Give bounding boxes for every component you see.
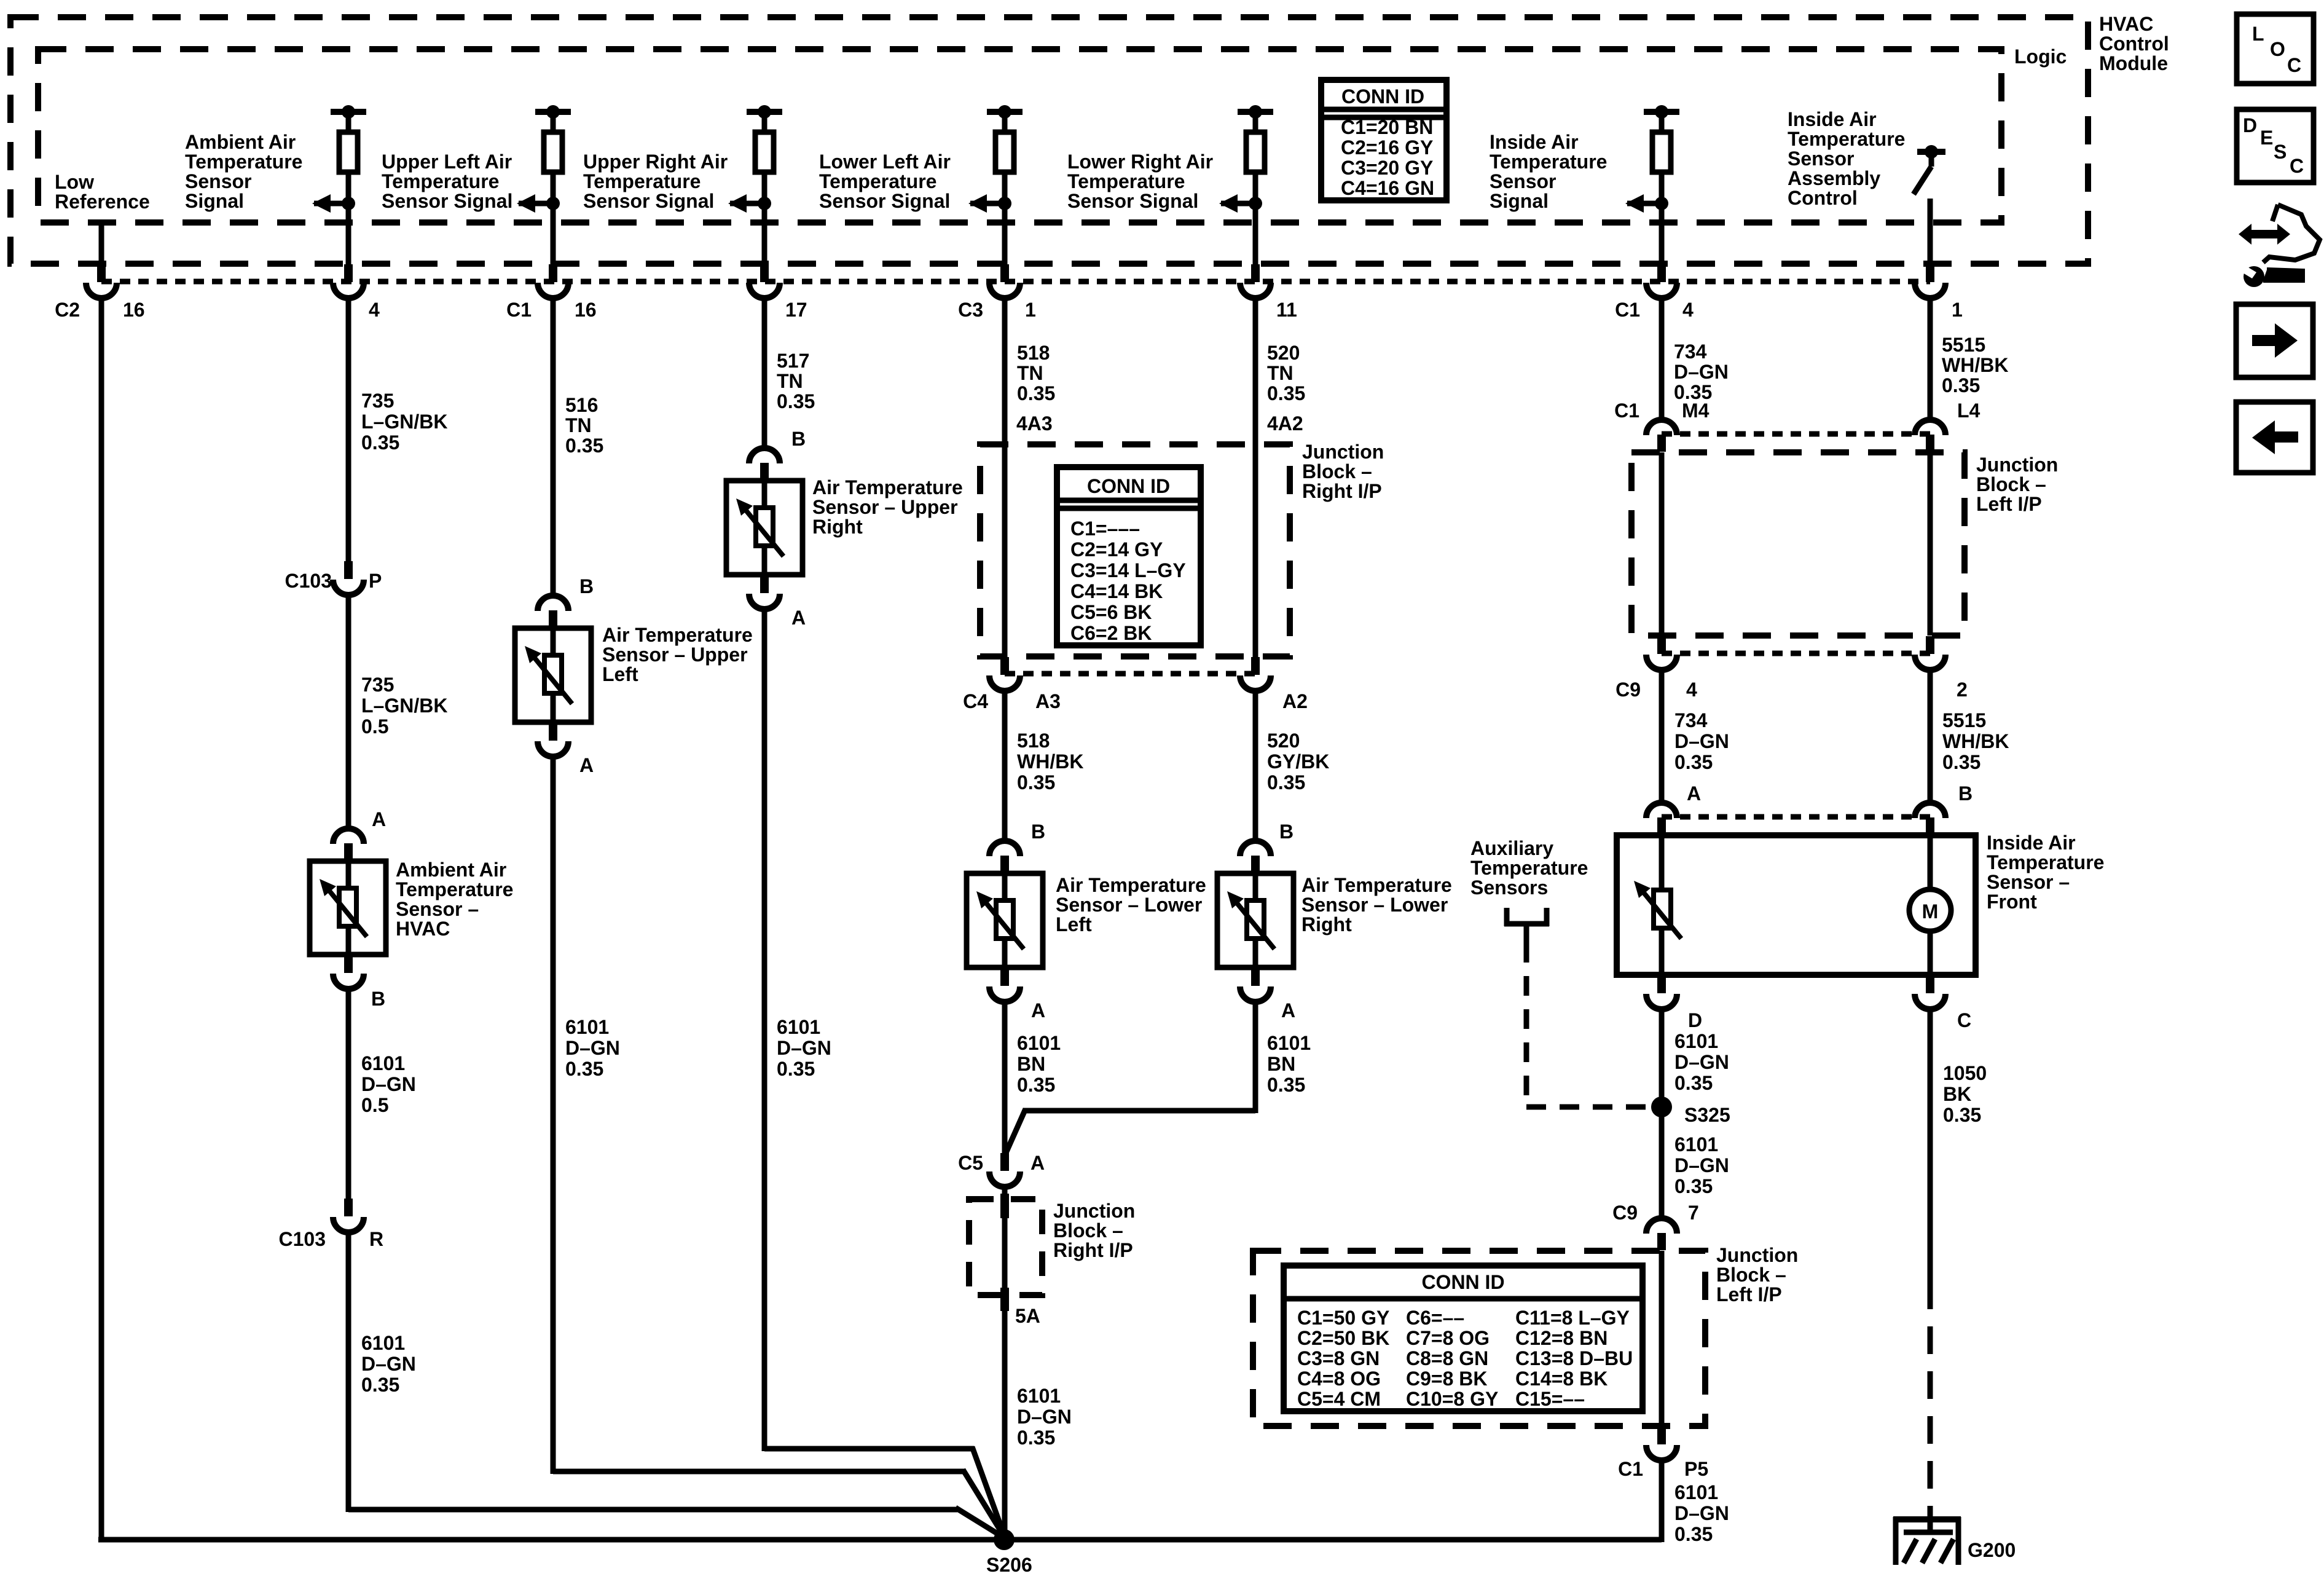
svg-text:0.35: 0.35 xyxy=(1267,771,1305,793)
svg-text:0.35: 0.35 xyxy=(1674,1175,1713,1197)
svg-text:L–GN/BK: L–GN/BK xyxy=(361,411,447,433)
svg-text:R: R xyxy=(369,1228,383,1250)
pull-up resistor R upper left xyxy=(535,109,571,115)
Ambient Air Temperature Sensor - HVAC box xyxy=(346,861,351,955)
svg-text:Right: Right xyxy=(812,516,863,538)
svg-text:C8=8 GN: C8=8 GN xyxy=(1406,1347,1488,1369)
svg-text:B: B xyxy=(371,988,385,1010)
HVAC Control Module outer dashed box xyxy=(10,17,2088,264)
svg-text:D–GN: D–GN xyxy=(1674,1502,1729,1524)
svg-text:Sensor – Lower: Sensor – Lower xyxy=(1301,894,1448,916)
svg-text:D: D xyxy=(2243,114,2257,136)
wire W8 through junction block left xyxy=(1928,452,1933,636)
svg-text:Sensor – Upper: Sensor – Upper xyxy=(602,644,748,666)
connector face dotted line M4-L4 xyxy=(1662,431,1930,437)
svg-text:D–GN: D–GN xyxy=(565,1037,620,1059)
svg-text:CONN ID: CONN ID xyxy=(1087,475,1170,497)
svg-text:P: P xyxy=(369,570,382,592)
svg-text:C5=6 BK: C5=6 BK xyxy=(1070,601,1152,623)
splice S206 xyxy=(994,1529,1015,1550)
svg-text:A: A xyxy=(579,754,594,776)
svg-text:518: 518 xyxy=(1017,730,1050,752)
svg-text:Lower Left Air: Lower Left Air xyxy=(819,151,951,173)
connector cup D below sensor xyxy=(1657,975,1666,993)
svg-text:Left: Left xyxy=(602,663,638,685)
svg-text:C: C xyxy=(2287,54,2301,76)
svg-text:C3: C3 xyxy=(958,299,983,321)
svg-text:Front: Front xyxy=(1987,891,2037,913)
svg-text:Signal: Signal xyxy=(185,190,244,212)
svg-text:BN: BN xyxy=(1267,1053,1295,1075)
svg-text:C2=16 GY: C2=16 GY xyxy=(1341,136,1433,159)
svg-text:Control: Control xyxy=(2099,33,2169,55)
svg-text:C10=8 GY: C10=8 GY xyxy=(1406,1388,1498,1410)
back arrow icon box xyxy=(2236,402,2313,473)
svg-text:0.35: 0.35 xyxy=(565,1058,603,1080)
Air Temperature Sensor - Upper Left box xyxy=(551,628,556,722)
wiring repair icon (arrows and wrench) xyxy=(2239,205,2320,287)
svg-text:Inside Air: Inside Air xyxy=(1490,131,1579,153)
svg-text:6101: 6101 xyxy=(361,1332,405,1354)
svg-text:1: 1 xyxy=(1025,299,1036,321)
svg-text:Upper Right Air: Upper Right Air xyxy=(583,151,728,173)
wire W4 segment xyxy=(762,301,767,448)
svg-text:B: B xyxy=(1031,821,1045,843)
svg-text:Air Temperature: Air Temperature xyxy=(602,624,753,646)
module connector cup C1 pin 17 xyxy=(760,264,769,282)
svg-text:5515: 5515 xyxy=(1942,709,1986,731)
svg-text:Temperature: Temperature xyxy=(382,170,499,192)
svg-text:Air Temperature: Air Temperature xyxy=(1301,874,1452,896)
wire W2 bottom run to S206 xyxy=(348,1507,957,1513)
svg-text:C103: C103 xyxy=(285,570,332,592)
svg-text:D–GN: D–GN xyxy=(777,1037,831,1059)
connector C103 pin R cup xyxy=(344,1199,353,1216)
svg-text:WH/BK: WH/BK xyxy=(1942,354,2008,376)
svg-text:5A: 5A xyxy=(1015,1305,1040,1327)
svg-text:S206: S206 xyxy=(986,1554,1032,1576)
connector C5 pin A cup xyxy=(1000,1153,1009,1171)
svg-text:D: D xyxy=(1688,1009,1702,1031)
svg-text:Junction: Junction xyxy=(1302,441,1384,463)
svg-text:TN: TN xyxy=(565,414,592,436)
svg-text:P5: P5 xyxy=(1684,1458,1708,1480)
svg-text:2: 2 xyxy=(1957,679,1968,701)
svg-text:6101: 6101 xyxy=(1017,1032,1061,1054)
svg-text:0.35: 0.35 xyxy=(1017,1427,1055,1449)
svg-text:6101: 6101 xyxy=(1674,1481,1718,1503)
connector cup B at lower right sensor xyxy=(1251,856,1260,873)
svg-text:0.35: 0.35 xyxy=(1017,382,1055,404)
svg-text:Temperature: Temperature xyxy=(396,878,513,900)
svg-text:4: 4 xyxy=(1686,679,1697,701)
svg-text:Reference: Reference xyxy=(55,191,150,213)
svg-text:C14=8 BK: C14=8 BK xyxy=(1515,1368,1608,1390)
svg-text:Air Temperature: Air Temperature xyxy=(812,476,963,498)
svg-text:Temperature: Temperature xyxy=(1067,170,1185,192)
Junction Block - Right I/P small dashed box xyxy=(969,1199,1042,1295)
connector cup A at ambient sensor xyxy=(344,843,353,860)
svg-text:4: 4 xyxy=(369,299,380,321)
svg-text:C: C xyxy=(1957,1009,1971,1031)
svg-text:6101: 6101 xyxy=(1674,1133,1718,1156)
wire W8 dashed segment to ground xyxy=(1928,1282,1933,1514)
connector cup C below sensor xyxy=(1926,975,1934,993)
connector cup A at inside air sensor xyxy=(1657,817,1666,835)
module connector cup C1 pin 4 xyxy=(1657,264,1666,282)
svg-text:0.35: 0.35 xyxy=(361,431,399,454)
splice S325 xyxy=(1651,1097,1672,1117)
svg-text:Block –: Block – xyxy=(1976,473,2046,495)
svg-text:E: E xyxy=(2260,127,2273,149)
pull-up resistor R lower left xyxy=(987,109,1023,115)
pull-up resistor R lower right xyxy=(1238,109,1273,115)
svg-text:GY/BK: GY/BK xyxy=(1267,750,1329,773)
wire W3 segment xyxy=(551,301,556,596)
wire W1 bottom horizontal to S206 xyxy=(98,1537,1004,1543)
svg-text:A3: A3 xyxy=(1035,690,1061,712)
svg-text:4A2: 4A2 xyxy=(1267,412,1303,435)
svg-text:0.35: 0.35 xyxy=(1942,751,1981,773)
wire W7 bottom run to S206 xyxy=(1004,1537,1662,1543)
svg-text:C15=––: C15=–– xyxy=(1515,1388,1585,1410)
svg-text:D–GN: D–GN xyxy=(1674,361,1729,383)
wire W8 segment below C xyxy=(1928,1009,1933,1282)
svg-text:B: B xyxy=(1958,782,1973,805)
Logic inner dashed box xyxy=(38,49,2001,222)
Junction Block - Right I/P dashed box xyxy=(980,444,1290,656)
connector cup B at lower left sensor xyxy=(1000,856,1009,873)
svg-text:A: A xyxy=(791,607,806,629)
wire W7 segment xyxy=(1659,301,1665,420)
module connector cup C1 pin 16 xyxy=(549,264,557,282)
svg-text:C9=8 BK: C9=8 BK xyxy=(1406,1368,1488,1390)
motor M inside sensor assembly xyxy=(1909,889,1951,931)
svg-text:734: 734 xyxy=(1674,341,1707,363)
CONN ID table for HVAC Control Module xyxy=(1321,80,1447,200)
svg-text:C1=20 BN: C1=20 BN xyxy=(1341,116,1433,138)
svg-text:0.35: 0.35 xyxy=(1943,1104,1981,1126)
svg-text:D–GN: D–GN xyxy=(361,1353,416,1375)
svg-text:D–GN: D–GN xyxy=(361,1073,416,1095)
svg-text:D–GN: D–GN xyxy=(1674,1051,1729,1073)
svg-text:HVAC: HVAC xyxy=(2099,13,2153,35)
junction block 2 top pin tick xyxy=(1000,1194,1009,1218)
svg-text:C6=––: C6=–– xyxy=(1406,1307,1464,1329)
wire W7 segment to S325 xyxy=(1659,1009,1665,1218)
Inside Air Temperature Sensor - Front box xyxy=(1659,835,1665,975)
svg-text:Right I/P: Right I/P xyxy=(1053,1239,1133,1261)
svg-text:TN: TN xyxy=(777,370,803,392)
svg-text:Sensors: Sensors xyxy=(1470,876,1548,899)
wire W7 bottom segment xyxy=(1659,1461,1665,1542)
svg-text:C4=14 BK: C4=14 BK xyxy=(1070,580,1163,602)
Air Temperature Sensor - Lower Left box xyxy=(1002,873,1008,967)
svg-text:C: C xyxy=(2290,155,2304,177)
svg-text:0.35: 0.35 xyxy=(1674,751,1713,773)
forward arrow icon box xyxy=(2236,304,2313,377)
svg-text:0.35: 0.35 xyxy=(1942,374,1980,396)
svg-text:Sensor Signal: Sensor Signal xyxy=(819,190,950,212)
wire W8 in module xyxy=(1928,199,1933,264)
svg-text:Block –: Block – xyxy=(1716,1264,1786,1286)
svg-text:A: A xyxy=(1687,782,1701,805)
ground G200 xyxy=(1928,1512,1933,1534)
Junction Block - Left I/P dashed box xyxy=(1631,452,1965,636)
svg-text:0.35: 0.35 xyxy=(1017,1074,1055,1096)
svg-text:C11=8 L–GY: C11=8 L–GY xyxy=(1515,1307,1630,1329)
connector cup B at upper right sensor xyxy=(760,463,769,480)
wire W1 low reference vertical in module xyxy=(99,222,104,264)
auxiliary temperature sensors bracket xyxy=(1504,908,1510,926)
svg-text:Sensor –: Sensor – xyxy=(1987,871,2070,893)
connector cup B below ambient sensor xyxy=(344,955,353,973)
svg-text:Sensor Signal: Sensor Signal xyxy=(382,190,512,212)
svg-text:C1=50 GY: C1=50 GY xyxy=(1297,1307,1389,1329)
CONN ID table for junction block left xyxy=(1284,1266,1643,1411)
svg-text:Temperature: Temperature xyxy=(819,170,936,192)
svg-text:C9: C9 xyxy=(1612,1202,1638,1224)
wire W2 segment to C103 R xyxy=(346,989,351,1199)
connector C103 pin P cup xyxy=(344,561,353,579)
wire W2 segment to C103 xyxy=(346,301,351,562)
svg-text:Signal: Signal xyxy=(1490,190,1549,212)
svg-text:Module: Module xyxy=(2099,52,2168,74)
svg-text:Left I/P: Left I/P xyxy=(1716,1283,1782,1305)
svg-text:Block –: Block – xyxy=(1302,460,1372,482)
svg-text:Logic: Logic xyxy=(2014,45,2067,68)
svg-text:0.35: 0.35 xyxy=(1267,1074,1305,1096)
wire W2 segment C103 to sensor xyxy=(346,595,351,829)
wire W5 segment through junction block xyxy=(1002,301,1008,657)
wire W6 segment down xyxy=(1253,1002,1258,1113)
svg-text:0.35: 0.35 xyxy=(1017,771,1055,793)
svg-text:735: 735 xyxy=(361,390,394,412)
svg-text:Sensor – Upper: Sensor – Upper xyxy=(812,496,958,518)
svg-text:518: 518 xyxy=(1017,342,1050,364)
svg-text:1050: 1050 xyxy=(1943,1062,1987,1084)
svg-text:0.35: 0.35 xyxy=(1674,1523,1713,1545)
svg-text:S325: S325 xyxy=(1684,1104,1730,1126)
wire W3 bottom run to S206 xyxy=(553,1469,965,1475)
wire W6 in module xyxy=(1253,203,1258,264)
connector face dotted line A-B row xyxy=(1662,814,1930,820)
wire W7 through junction block bottom xyxy=(1659,1251,1665,1426)
svg-text:BK: BK xyxy=(1943,1083,1971,1105)
wire W4 bottom run to S206 xyxy=(764,1446,974,1452)
svg-text:C5: C5 xyxy=(958,1152,983,1174)
svg-text:C13=8 D–BU: C13=8 D–BU xyxy=(1515,1347,1633,1369)
svg-text:C5=4 CM: C5=4 CM xyxy=(1297,1388,1381,1410)
svg-text:B: B xyxy=(791,428,806,450)
connector cup C4 pin A3 xyxy=(1000,657,1009,675)
svg-text:5515: 5515 xyxy=(1942,334,1985,356)
svg-text:Junction: Junction xyxy=(1976,454,2058,476)
svg-text:Sensor – Lower: Sensor – Lower xyxy=(1056,894,1202,916)
module connector cup C2 pin 16 xyxy=(97,264,106,282)
svg-text:0.5: 0.5 xyxy=(361,1094,388,1116)
svg-text:Lower Right Air: Lower Right Air xyxy=(1067,151,1213,173)
svg-text:C3=14 L–GY: C3=14 L–GY xyxy=(1070,559,1186,581)
svg-text:0.35: 0.35 xyxy=(361,1374,399,1396)
svg-text:C12=8 BN: C12=8 BN xyxy=(1515,1327,1608,1349)
svg-text:A: A xyxy=(1031,999,1045,1022)
Air Temperature Sensor - Upper Right box xyxy=(762,481,767,575)
connector cup C1 pin P5 xyxy=(1657,1427,1666,1444)
svg-text:16: 16 xyxy=(575,299,597,321)
svg-text:C2: C2 xyxy=(55,299,80,321)
connector cup A below upper right sensor xyxy=(760,575,769,593)
svg-text:CONN ID: CONN ID xyxy=(1341,85,1424,108)
svg-text:WH/BK: WH/BK xyxy=(1942,730,2009,752)
svg-text:516: 516 xyxy=(565,394,598,416)
svg-text:6101: 6101 xyxy=(1674,1030,1718,1052)
svg-text:Junction: Junction xyxy=(1716,1244,1798,1266)
svg-text:Left: Left xyxy=(1056,913,1092,935)
svg-text:4: 4 xyxy=(1682,299,1694,321)
svg-text:C7=8 OG: C7=8 OG xyxy=(1406,1327,1490,1349)
Air Temperature Sensor - Lower Right box xyxy=(1253,873,1258,967)
svg-text:BN: BN xyxy=(1017,1053,1045,1075)
svg-text:Temperature: Temperature xyxy=(1788,128,1905,150)
connector cup pin L4 xyxy=(1926,435,1934,452)
wire W8 segment below 2 xyxy=(1928,670,1933,803)
wire W6 segment through junction block xyxy=(1253,301,1258,657)
svg-text:Temperature: Temperature xyxy=(1987,851,2104,873)
LOC icon box xyxy=(2237,14,2314,84)
svg-text:4A3: 4A3 xyxy=(1016,412,1053,435)
svg-text:0.35: 0.35 xyxy=(777,1058,815,1080)
wire W3 in module xyxy=(551,203,556,264)
svg-text:Low: Low xyxy=(55,171,94,193)
svg-text:0.35: 0.35 xyxy=(1267,382,1305,404)
svg-text:17: 17 xyxy=(785,299,807,321)
wire W1 low reference vertical xyxy=(99,301,104,1542)
inside air temp sensor assembly control actuator symbol xyxy=(1917,149,1945,155)
module connector cup C3 pin 1 xyxy=(1000,264,1009,282)
svg-text:CONN ID: CONN ID xyxy=(1421,1271,1504,1293)
svg-text:Ambient Air: Ambient Air xyxy=(185,131,296,153)
svg-text:734: 734 xyxy=(1674,709,1708,731)
svg-text:L–GN/BK: L–GN/BK xyxy=(361,695,447,717)
svg-text:S: S xyxy=(2274,141,2287,163)
svg-text:A2: A2 xyxy=(1282,690,1308,712)
Junction Block - Left I/P bottom dashed box xyxy=(1253,1251,1705,1426)
svg-text:C1: C1 xyxy=(1618,1458,1643,1480)
svg-text:D–GN: D–GN xyxy=(1674,1154,1729,1176)
svg-text:Sensor Signal: Sensor Signal xyxy=(583,190,714,212)
connector cup A below lower left sensor xyxy=(1000,968,1009,986)
svg-text:A: A xyxy=(372,808,386,830)
svg-text:Sensor: Sensor xyxy=(1490,170,1556,192)
pull-up resistor R upper right xyxy=(747,109,782,115)
CONN ID table for junction block right xyxy=(1057,467,1201,645)
svg-text:Temperature: Temperature xyxy=(1490,151,1607,173)
svg-text:Inside Air: Inside Air xyxy=(1987,832,2076,854)
svg-text:C4=16 GN: C4=16 GN xyxy=(1341,177,1434,199)
svg-text:Sensor –: Sensor – xyxy=(396,898,479,920)
svg-text:Temperature: Temperature xyxy=(1470,857,1588,879)
svg-text:C1: C1 xyxy=(506,299,532,321)
wire W5 segment below A3 xyxy=(1002,691,1008,841)
svg-text:L4: L4 xyxy=(1957,400,1981,422)
module connector cup C3 pin 11 xyxy=(1251,264,1260,282)
svg-text:Left I/P: Left I/P xyxy=(1976,493,2042,515)
connector cup pin A2 xyxy=(1251,657,1260,675)
wire W3 lower segment xyxy=(551,757,556,1474)
module connector cup C2 pin 4 xyxy=(344,264,353,282)
svg-text:C2=14 GY: C2=14 GY xyxy=(1070,538,1163,561)
connector cup A below upper left sensor xyxy=(549,723,557,741)
wire W7 in module xyxy=(1659,203,1665,264)
wire W7 segment below C9 xyxy=(1659,670,1665,803)
svg-text:C9: C9 xyxy=(1615,679,1641,701)
svg-text:0.5: 0.5 xyxy=(361,715,388,738)
svg-text:Block –: Block – xyxy=(1053,1219,1123,1242)
svg-text:C3=8 GN: C3=8 GN xyxy=(1297,1347,1380,1369)
svg-text:C4: C4 xyxy=(963,690,988,712)
svg-text:Temperature: Temperature xyxy=(185,151,302,173)
connector cup C9 pin 4 xyxy=(1657,636,1666,654)
svg-text:520: 520 xyxy=(1267,730,1300,752)
svg-text:HVAC: HVAC xyxy=(396,918,450,940)
junction block 2 bottom pin tick xyxy=(1000,1288,1009,1311)
connector face dotted line C9 row xyxy=(1662,651,1930,656)
svg-text:6101: 6101 xyxy=(1267,1032,1311,1054)
svg-text:C1: C1 xyxy=(1615,299,1640,321)
svg-text:Assembly: Assembly xyxy=(1788,167,1880,189)
wire W2 in module xyxy=(346,203,351,264)
connector face dotted line C1/C2/C3 xyxy=(101,279,1930,285)
svg-text:Ambient Air: Ambient Air xyxy=(396,859,506,881)
svg-text:Control: Control xyxy=(1788,187,1858,209)
svg-text:Sensor Signal: Sensor Signal xyxy=(1067,190,1198,212)
svg-text:O: O xyxy=(2270,38,2285,60)
svg-text:0.35: 0.35 xyxy=(1674,381,1712,403)
DESC icon box xyxy=(2237,109,2314,183)
svg-text:TN: TN xyxy=(1267,362,1294,384)
svg-text:7: 7 xyxy=(1688,1202,1699,1224)
svg-text:C103: C103 xyxy=(279,1228,326,1250)
svg-text:TN: TN xyxy=(1017,362,1043,384)
svg-text:6101: 6101 xyxy=(1017,1385,1061,1407)
svg-text:Right: Right xyxy=(1301,913,1352,935)
auxiliary sensors dashed wire to S325 xyxy=(1524,943,1529,1107)
svg-text:Temperature: Temperature xyxy=(583,170,701,192)
svg-text:6101: 6101 xyxy=(777,1016,820,1038)
pull-up resistor R inside air xyxy=(1644,109,1679,115)
svg-text:0.35: 0.35 xyxy=(777,390,815,412)
svg-text:C6=2 BK: C6=2 BK xyxy=(1070,622,1152,644)
connector face dotted line A3-A2 xyxy=(1005,671,1255,677)
svg-text:D–GN: D–GN xyxy=(1017,1406,1072,1428)
connector cup C1 pin M4 xyxy=(1657,435,1666,452)
svg-text:A: A xyxy=(1030,1152,1045,1174)
connector cup B at inside air sensor xyxy=(1926,817,1934,835)
connector cup C9 pin 7 xyxy=(1657,1233,1666,1250)
wire W4 in module xyxy=(762,203,767,264)
svg-text:1: 1 xyxy=(1952,299,1963,321)
svg-text:M: M xyxy=(1922,900,1939,923)
svg-text:C1: C1 xyxy=(1614,400,1639,422)
wire W6 run joining W5 xyxy=(1024,1108,1255,1114)
connector cup pin 2 xyxy=(1926,636,1934,654)
wire W5 into junction block 2 xyxy=(1002,1187,1008,1542)
svg-text:L: L xyxy=(2252,23,2264,45)
svg-text:Junction: Junction xyxy=(1053,1200,1135,1222)
svg-text:0.35: 0.35 xyxy=(1674,1072,1713,1094)
pull-up resistor R ambient xyxy=(331,109,366,115)
